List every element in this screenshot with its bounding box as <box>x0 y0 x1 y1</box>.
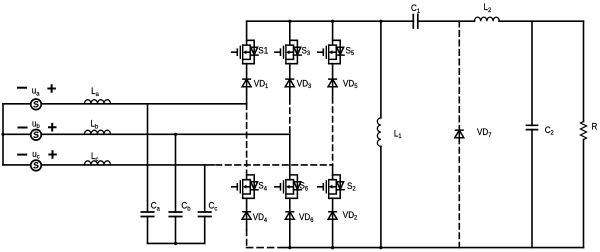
label VD1 <box>254 78 269 90</box>
diode VD5 <box>328 79 337 87</box>
label VD7 <box>477 127 492 139</box>
label plus ub <box>48 123 57 132</box>
transistor S4 <box>232 175 258 198</box>
diode VD1 <box>242 79 251 87</box>
label Ca <box>151 200 161 212</box>
node junction L1-bottom bus <box>379 246 382 249</box>
wire S1 to VD1 <box>246 64 248 79</box>
source uc <box>31 160 42 171</box>
inductor La <box>85 100 111 104</box>
node junction S3-bus <box>288 20 291 23</box>
wire dashed bottom bus left <box>247 247 285 249</box>
label S2 <box>347 180 356 192</box>
label Lb <box>91 118 99 130</box>
wire phase b line <box>3 133 290 135</box>
inductor Lc <box>85 161 111 165</box>
transistor S3 <box>275 40 301 63</box>
label S3 <box>302 45 311 57</box>
label L1 <box>394 128 402 140</box>
wire dashed phase c extension <box>216 164 333 166</box>
wire dashed phase a down to S4 <box>246 104 248 175</box>
wire VD3 stub <box>289 87 291 97</box>
wire S2 to VD2 <box>332 198 334 211</box>
label S1 <box>258 45 268 56</box>
inductor Lb <box>85 130 111 134</box>
wire S5 to VD5 <box>332 64 334 79</box>
label minus ua <box>17 87 27 89</box>
label La <box>91 86 99 98</box>
wire dashed S5 stub to phase c <box>332 98 334 165</box>
label VD2 <box>343 209 358 221</box>
node junction Cb-connector <box>174 242 177 245</box>
capacitor C1 <box>413 15 418 29</box>
wire S3 to VD3 <box>289 64 291 79</box>
wire phase a line <box>3 103 247 105</box>
transistor S1 <box>232 40 258 63</box>
diode VD6 <box>285 212 294 220</box>
diode VD2 <box>328 212 337 220</box>
wire phase b down to S6 <box>289 134 291 175</box>
wire bottom bus <box>285 247 584 249</box>
label minus ub <box>18 127 28 129</box>
wire L1 branch upper <box>380 21 382 118</box>
label VD5 <box>343 78 358 90</box>
diode VD3 <box>285 79 294 87</box>
wire phase c node down to S2 <box>332 165 334 175</box>
label ub <box>32 118 40 130</box>
capacitor C2 <box>527 125 538 129</box>
resistor R <box>581 122 587 140</box>
node junction Cb-phase b <box>174 133 177 136</box>
wire VD2 to bottom bus <box>332 219 334 247</box>
node junction S5-bus <box>331 20 334 23</box>
label plus ua <box>47 84 56 93</box>
source ua <box>31 99 42 110</box>
diode VD7 <box>455 130 464 138</box>
label Lc <box>91 151 98 163</box>
diode VD4 <box>242 212 251 220</box>
label C1 <box>411 3 421 15</box>
label uc <box>32 148 39 160</box>
label S5 <box>346 45 355 57</box>
node junction L1-bus <box>379 20 382 23</box>
wire Ca tap <box>147 104 149 212</box>
wire Cb leg <box>175 217 177 244</box>
label Cc <box>209 200 218 212</box>
wire Cc tap <box>204 165 206 212</box>
capacitor Cb <box>169 212 181 217</box>
label ua <box>32 85 40 97</box>
wire R branch lower <box>583 140 585 248</box>
wire Cc leg <box>204 217 206 244</box>
wire C2 branch lower <box>531 130 533 248</box>
label VD6 <box>299 212 314 224</box>
svg-text:R: R <box>592 121 598 132</box>
wire Cb tap <box>175 134 177 212</box>
wire R branch upper <box>583 21 585 121</box>
wire phase c line <box>3 164 214 166</box>
wire dashed VD7 lower <box>458 138 460 248</box>
label plus uc <box>48 150 57 159</box>
label R <box>592 121 598 132</box>
capacitor Ca <box>141 212 153 217</box>
capacitor Cc <box>199 212 211 217</box>
wire S3 leg from bus <box>289 21 291 40</box>
label S4 <box>258 180 267 192</box>
transistor S2 <box>318 175 344 198</box>
wire S1 leg from bus <box>246 21 248 40</box>
wire VD6 to bottom bus <box>289 219 291 247</box>
wire cap bank connector <box>148 242 205 244</box>
wire C2 branch upper <box>531 21 533 125</box>
inductor L1 <box>377 118 381 146</box>
transistor S5 <box>318 40 344 63</box>
node junction S2-bottom bus <box>331 246 334 249</box>
inductor L2 <box>475 17 500 21</box>
label C2 <box>545 124 555 136</box>
wire VD1 to phase a <box>246 87 248 104</box>
wire S4 to VD4 <box>246 198 248 211</box>
wire top bus <box>247 20 584 22</box>
svg-text:S1: S1 <box>258 45 268 56</box>
transistor S6 <box>275 175 301 198</box>
wire VD4 stub <box>246 219 248 229</box>
source ub <box>31 129 42 140</box>
label S6 <box>300 180 309 192</box>
node junction left-phase b <box>1 133 4 136</box>
wire S6 to VD6 <box>289 198 291 211</box>
label VD3 <box>297 78 312 90</box>
wire dashed VD4 to bottom bus <box>246 230 248 248</box>
wire dashed VD7 upper <box>458 21 460 128</box>
label VD4 <box>253 212 268 224</box>
label Cb <box>181 200 191 212</box>
label minus uc <box>17 154 27 156</box>
wire S5 leg from bus <box>332 21 334 40</box>
wire left vertical <box>2 104 4 165</box>
wire L1 branch lower <box>380 146 382 247</box>
wire VD5 stub <box>332 87 334 96</box>
node junction S6-bottom bus <box>288 246 291 249</box>
label L2 <box>484 2 492 14</box>
wire Ca leg <box>147 217 149 244</box>
wire dashed S3 stub to phase b <box>289 99 291 135</box>
